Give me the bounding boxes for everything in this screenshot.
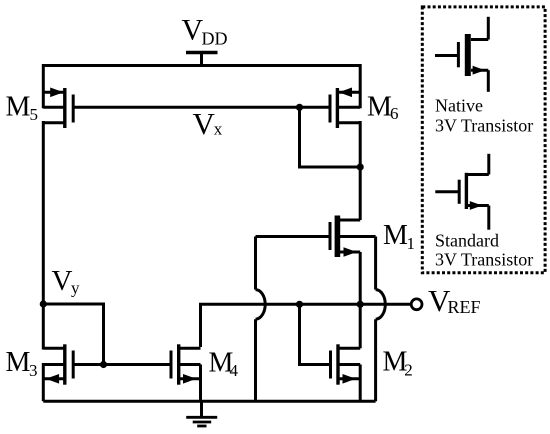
transistor M1 (native, thick channel) (330, 216, 376, 258)
svg-text:5: 5 (30, 105, 39, 124)
label M6 (367, 92, 399, 124)
node Vy junction dot (40, 300, 47, 307)
svg-text:DD: DD (202, 29, 228, 49)
wire M2 body/source down to ground rail (359, 365, 362, 402)
label VDD (182, 14, 228, 49)
legend dotted box (422, 7, 545, 273)
svg-text:M: M (6, 92, 31, 123)
svg-text:3V Transistor: 3V Transistor (435, 250, 533, 270)
label M3 (6, 347, 38, 380)
wire M1 gate lead (256, 235, 331, 238)
svg-text:V: V (182, 14, 204, 47)
label VREF (428, 283, 481, 318)
svg-text:M: M (367, 92, 392, 123)
svg-text:Standard: Standard (435, 231, 499, 251)
svg-text:y: y (71, 279, 80, 298)
svg-text:4: 4 (230, 361, 239, 380)
wire Vx drop to M6 drain node (300, 107, 361, 167)
legend label Native (435, 96, 533, 136)
node Vx wire (M5 gate to M6 gate) (73, 106, 330, 109)
legend native 3V transistor symbol (435, 17, 488, 92)
svg-text:3: 3 (29, 361, 38, 380)
svg-text:V: V (193, 106, 216, 141)
svg-text:1: 1 (407, 234, 416, 253)
transistor M5 (43, 88, 73, 129)
wire M4 body/source down to ground rail (199, 365, 202, 402)
left rail wire (VDD-to-Vy-to-M3 drain) (42, 121, 45, 350)
label M4 (209, 347, 239, 380)
transistor M6 (330, 88, 360, 129)
label M5 (6, 92, 39, 124)
VREF output terminal circle (411, 299, 422, 310)
svg-text:M: M (383, 220, 408, 251)
transistor M4 (171, 344, 201, 384)
svg-text:Native: Native (435, 96, 483, 116)
node VREF junction dot left (296, 301, 303, 308)
label Vy (52, 265, 81, 298)
label Vx (193, 106, 223, 141)
wire Vy to M3/M4 gates (43, 304, 103, 365)
top rail wire (43, 66, 360, 109)
svg-text:6: 6 (390, 104, 399, 123)
ground rail wire (43, 400, 375, 403)
svg-text:REF: REF (448, 297, 481, 317)
legend label Standard (435, 231, 533, 270)
ground symbol (186, 401, 217, 426)
wire M2 gate feed from VREF line (300, 304, 331, 364)
svg-text:V: V (52, 265, 73, 297)
legend standard 3V transistor symbol (435, 154, 489, 230)
node VREF junction dot right (357, 301, 364, 308)
wire VREF line (M4 drain up and across to output) (201, 304, 411, 347)
svg-text:M: M (6, 347, 31, 378)
transistor M3 (43, 344, 73, 384)
wire M2 drain up to VREF node (359, 304, 362, 348)
wire M3 gate to M4 gate (73, 363, 171, 366)
label M1 (383, 220, 415, 253)
left rail wire (M3 body/source to ground rail) (42, 363, 45, 401)
node Vx junction dot (296, 104, 303, 111)
wire M1 body to ground with hop over VREF line (376, 237, 386, 402)
node junction dot at M6 drain / M1 drain (357, 163, 364, 170)
VDD supply bar (186, 53, 218, 66)
svg-text:x: x (214, 119, 223, 138)
transistor M2 (331, 344, 361, 384)
svg-text:2: 2 (404, 360, 413, 379)
svg-text:3V Transistor: 3V Transistor (435, 116, 533, 136)
wire M1 source down to VREF node (359, 252, 362, 304)
label M2 (383, 346, 413, 379)
right rail wire (M6 drain down to M1 drain) (359, 121, 362, 220)
wire M1 gate to ground with hop over VREF line (256, 237, 266, 402)
node M3/M4 gate junction dot (100, 361, 107, 368)
